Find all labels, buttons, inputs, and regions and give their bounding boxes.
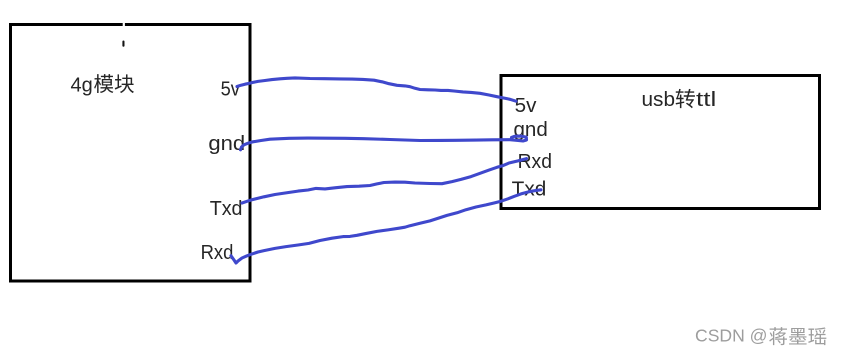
svg-text:5v: 5v <box>221 79 240 101</box>
svg-text:5v: 5v <box>515 95 537 117</box>
svg-text:ttl: ttl <box>696 89 716 111</box>
svg-text:Rxd: Rxd <box>518 151 552 173</box>
svg-text:CSDN @: CSDN @ <box>695 326 768 346</box>
svg-text:4g: 4g <box>71 75 93 97</box>
svg-text:usb: usb <box>642 89 676 111</box>
svg-text:gnd: gnd <box>208 133 245 155</box>
svg-text:Rxd: Rxd <box>201 242 234 264</box>
svg-text:Txd: Txd <box>210 198 243 220</box>
